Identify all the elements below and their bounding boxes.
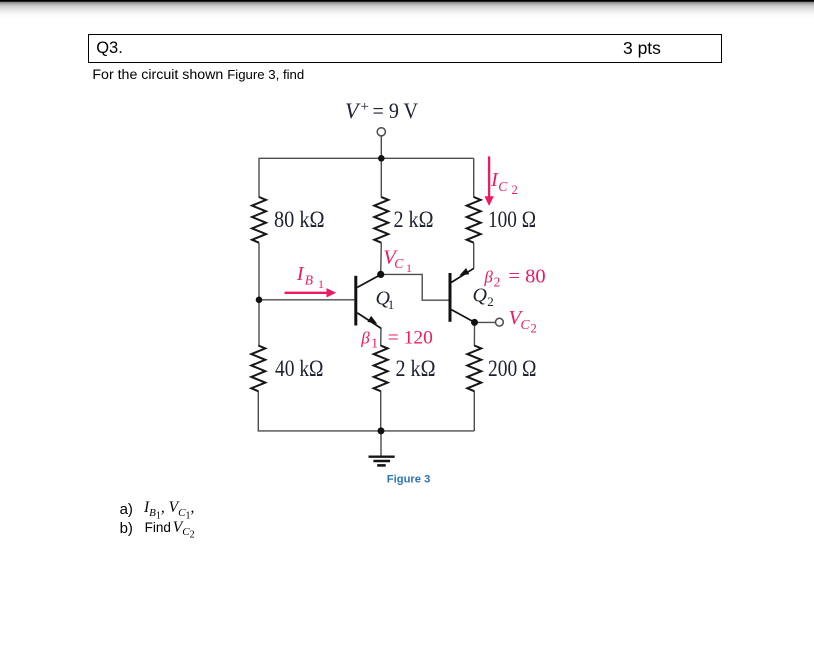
svg-text:2: 2 (494, 275, 501, 290)
svg-text:2: 2 (512, 183, 518, 197)
svg-text:100 Ω: 100 Ω (488, 207, 536, 232)
svg-text:2 kΩ: 2 kΩ (396, 356, 436, 381)
svg-text:1: 1 (406, 261, 412, 275)
svg-text:80 kΩ: 80 kΩ (274, 207, 325, 232)
svg-text:B: B (305, 273, 313, 288)
svg-text:200 Ω: 200 Ω (488, 356, 537, 381)
svg-text:1: 1 (371, 335, 378, 350)
svg-text:= 120: = 120 (388, 327, 433, 348)
svg-text:Q: Q (473, 285, 488, 307)
svg-text:V+= 9 V: V+= 9 V (345, 98, 418, 123)
svg-text:C: C (394, 256, 404, 271)
svg-text:2 kΩ: 2 kΩ (394, 207, 434, 232)
svg-text:= 80: = 80 (508, 266, 545, 288)
svg-text:Figure 3: Figure 3 (387, 474, 431, 486)
svg-text:40 kΩ: 40 kΩ (275, 356, 324, 381)
svg-text:2: 2 (531, 322, 537, 336)
svg-text:I: I (296, 263, 305, 285)
svg-text:1: 1 (388, 297, 395, 312)
svg-text:β: β (360, 328, 370, 347)
svg-text:1: 1 (318, 277, 324, 291)
svg-text:2: 2 (487, 294, 494, 309)
svg-text:β: β (483, 268, 493, 287)
svg-text:C: C (521, 317, 531, 332)
svg-text:C: C (498, 179, 508, 194)
